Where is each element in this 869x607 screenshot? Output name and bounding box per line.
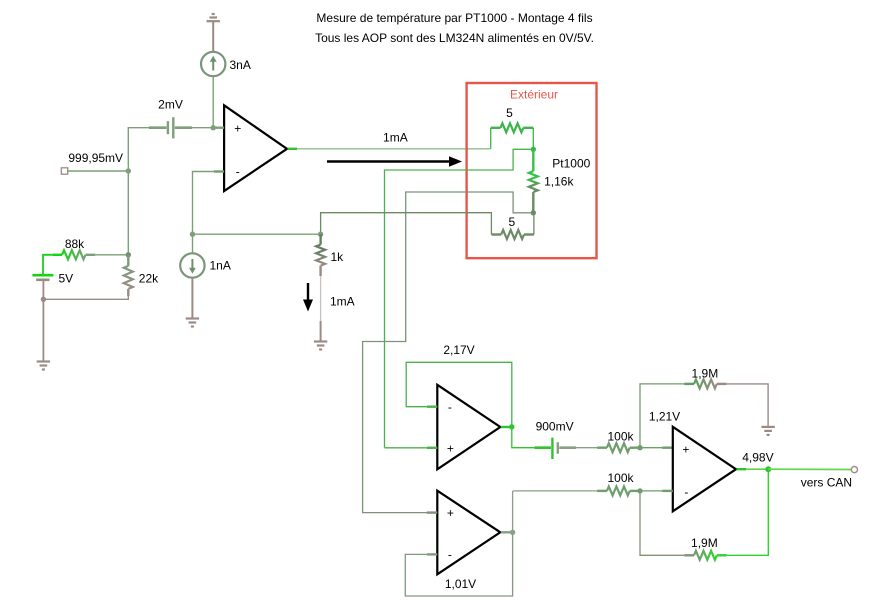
current arrow 1mA (down) [303,283,313,312]
wire + input U2 [385,447,427,449]
battery V2 2mV [149,117,192,138]
wire 1mA to box [297,148,491,150]
battery V1 5V [32,275,53,280]
wire U1 output stub [288,148,298,150]
svg-text:5V: 5V [59,272,74,286]
svg-text:100k: 100k [607,471,634,485]
resistor 22k [124,255,133,296]
svg-text:2,17V: 2,17V [443,343,474,357]
current source I1 3nA [201,52,225,76]
wire U3 output up [512,491,514,532]
svg-text:+: + [682,442,689,456]
wire - node down to 1,9M [640,491,684,555]
resistor Pt1000 1,16k [529,149,538,213]
junction + input U4 [637,445,642,450]
wire into box up to R 5 (top) [490,128,492,149]
wire sense (bottom, to buffer U3) [363,192,531,513]
junction U4 output [765,466,771,472]
wire U2 output stub [501,426,510,428]
wire U3 output stub [501,531,510,533]
pin - lead U4 [662,490,673,492]
ground (under 1nA) [186,319,199,327]
wire sense (top, to buffer U2) [385,149,531,448]
svg-text:1mA: 1mA [330,294,355,308]
wire to vers CAN terminal [768,468,851,470]
svg-text:999,95mV: 999,95mV [68,151,123,165]
wire 1nA to ground [191,278,193,318]
wire U4 output stub [737,468,747,470]
svg-text:Pt1000: Pt1000 [552,156,590,170]
svg-text:1,9M: 1,9M [692,367,719,381]
boundary box Extérieur [467,83,597,258]
svg-text:Tous les AOP sont des LM324N a: Tous les AOP sont des LM324N alimentés e… [315,31,594,45]
ground (right of 1,9M) [761,427,774,435]
wire U2 output down [512,427,535,448]
resistor 5 (top lead) [491,123,534,132]
pin + lead U2 [427,447,438,449]
wire inverting net horizontal [193,233,321,235]
pin - lead U1 [214,170,224,172]
wire R5 top to node [532,128,534,150]
junction 88k/22k [126,252,131,257]
junction Pt1000 bottom [531,210,536,215]
svg-text:Extérieur: Extérieur [510,87,558,101]
pin + lead U1 [213,126,224,128]
pin - lead U3 [427,553,438,555]
junction U3 output [510,530,515,535]
op-amp U4 [673,427,736,512]
junction Pt1000 top [531,147,536,152]
terminal vers CAN [851,467,857,473]
resistor 88k [52,250,95,259]
wire terminal to node [68,170,129,172]
resistor 100k (top) [597,443,640,452]
svg-text:1,16k: 1,16k [544,175,574,189]
battery 900mV [534,438,576,459]
resistor 1,9M (bottom) [684,551,726,560]
svg-text:1,01V: 1,01V [445,577,476,591]
wire node to U4 - [640,490,662,492]
wire R5 bottom to node [533,214,535,235]
op-amp U2 buffer [437,385,500,470]
wire node to 1nA [192,234,194,253]
svg-text:-: - [236,165,240,179]
svg-text:vers CAN: vers CAN [801,475,852,489]
resistor 5 (bottom lead) [491,230,534,239]
wire 22k to 0V node [43,296,128,299]
junction 1k top [318,232,323,237]
wire feedback U3 [405,532,512,596]
ground (under 5V) [37,362,50,370]
wire 3nA to noninverting node [212,76,214,128]
current source I2 1nA [180,253,204,277]
svg-text:900mV: 900mV [536,419,574,433]
junction - input U4 [637,488,642,493]
svg-text:22k: 22k [139,272,159,286]
svg-text:88k: 88k [65,237,85,251]
svg-text:100k: 100k [607,429,634,443]
junction noninverting input [211,125,216,130]
ground (top, inverted) [207,14,220,52]
resistor 100k (bottom) [597,486,640,495]
wire 5V+ to 88k [43,255,52,275]
svg-text:1nA: 1nA [210,259,231,273]
wire node to U4 + [640,447,662,449]
terminal 999,95mV [61,168,67,174]
junction 1nA top [190,232,195,237]
wire 1,9M feedback to output [727,469,769,555]
junction U2 output [509,424,514,429]
svg-text:1k: 1k [331,250,345,264]
wire force return (to R 5 bottom) [321,213,492,235]
svg-text:-: - [448,400,452,414]
wire left vertical (999,95mV net) [128,128,149,255]
pin + lead U3 [427,511,438,513]
svg-text:-: - [684,485,688,499]
svg-text:2mV: 2mV [158,98,183,112]
wire 88k to node [95,254,128,256]
svg-text:-: - [448,548,452,562]
wire 0V node to ground [42,299,44,360]
wire + node up to 1,9M [640,384,684,448]
wire feedback U2 [406,362,512,427]
svg-text:1mA: 1mA [383,130,408,144]
wire 1k to ground [320,276,322,321]
resistor 1k [316,234,325,276]
pin - lead U2 [427,406,438,408]
svg-text:3nA: 3nA [230,58,251,72]
wire 1,9M to ground [727,384,769,426]
ground (under 1k) [314,342,327,350]
svg-text:+: + [234,122,241,136]
svg-text:+: + [447,506,454,520]
pin + lead U4 [662,447,673,449]
wire inverting input down [193,172,214,235]
svg-text:+: + [447,441,454,455]
svg-text:Mesure de température par PT10: Mesure de température par PT1000 - Monta… [316,11,592,25]
current arrow 1mA [327,156,462,166]
svg-text:1,21V: 1,21V [649,409,680,423]
svg-text:5: 5 [506,106,513,120]
wire 5V- to 0V node [42,280,44,300]
junction 999,95mV [126,168,131,173]
wire battery to + node [192,127,213,129]
resistor 1,9M (top) [684,379,726,388]
wire 900mV to 100k [576,447,597,449]
svg-text:1,9M: 1,9M [691,536,718,550]
svg-text:5: 5 [508,215,515,229]
op-amp U3 buffer [437,491,500,575]
junction 0V [41,297,46,302]
op-amp U1 [224,105,287,191]
svg-text:4,98V: 4,98V [742,451,773,465]
wire U3 output to 100k [513,490,597,492]
